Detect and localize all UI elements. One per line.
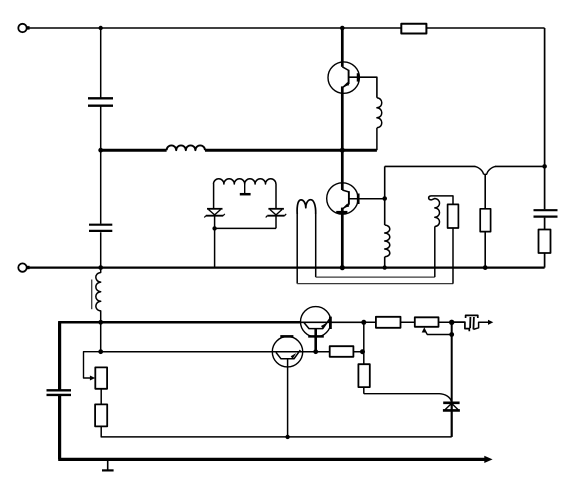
resistor R2 (right) <box>539 230 551 254</box>
wire x=451.7 vertical <box>451 322 453 403</box>
node dot (384.7,198.5) <box>382 196 387 201</box>
wire diode bottoms connector <box>215 216 276 229</box>
transistor Q4 <box>272 336 302 437</box>
wire thick y=150.2 <box>101 149 377 152</box>
terminal T2 (bottom input) <box>18 263 29 271</box>
inductor L2 (Q1 base coil) <box>377 98 382 150</box>
wire L4 right end down <box>275 184 277 208</box>
wire R8 links <box>364 321 452 323</box>
ground <box>102 459 114 470</box>
wire bottom corner to y=436.9 <box>101 426 452 437</box>
resistor R8 <box>376 317 401 328</box>
node dot (362.5,351.7) <box>360 349 365 354</box>
node dot (451.7,334.5) <box>449 332 454 337</box>
node dot (100.7,351.7) <box>98 349 103 354</box>
node dot (451.7,322.3) <box>449 320 454 325</box>
wire y=393.7 with fillet to zener <box>364 394 452 404</box>
node dot (363.8,322.3) <box>361 320 366 325</box>
capacitor C3 (right) <box>534 210 558 216</box>
inductor L3 (squiggle) <box>385 225 390 257</box>
wire x=453 down <box>452 228 454 284</box>
node dot (100.7,322.3) <box>98 320 103 325</box>
inductor L4 (detector coil, 6 bumps) <box>214 179 276 184</box>
trimmer VR2 with wiper <box>415 317 452 334</box>
transistor Q1 <box>328 28 359 150</box>
node dot (100.7,150.2) <box>98 148 103 153</box>
wire thick y=322.3 <box>58 321 301 324</box>
capacitor C1 <box>88 98 113 105</box>
zener D3 <box>443 403 460 411</box>
thick frame left + bottom with arrow <box>58 322 492 463</box>
wire Q1 base to coil <box>349 77 377 98</box>
potentiometer VR1 with wiper <box>84 352 108 389</box>
wire pot to resistor <box>100 389 102 405</box>
inductor L1 (series, 4 bumps) <box>167 145 205 150</box>
diode D2 (right zener) <box>266 209 287 218</box>
choke L7 (with core bar) <box>92 268 101 323</box>
center tap of L4 <box>240 184 251 194</box>
wire y=351.7 <box>101 351 362 353</box>
jack J1 (earphone output) <box>452 315 494 331</box>
node dot (287.6,436.9) <box>285 435 289 439</box>
main bus y=267.6 <box>28 267 545 269</box>
node dot (342.3,150.2) <box>340 148 345 153</box>
wire loop y=277.1 <box>316 276 435 278</box>
capacitor C2 <box>89 225 112 231</box>
resistor R1 <box>401 24 426 34</box>
coil L5 (2-turn coupling coil) <box>297 200 316 284</box>
wire x=100.7 (322-352) <box>100 322 102 351</box>
terminal T1 (top input) <box>18 24 29 32</box>
resistor R3 <box>480 209 490 232</box>
resistor R4 <box>448 204 459 228</box>
node dot (214.6,228.4) <box>212 226 216 230</box>
wire top bus <box>28 27 545 29</box>
wire x=384.7 vertical <box>384 166 386 267</box>
transistor Q3 <box>301 307 331 352</box>
transformer coil L6 <box>429 196 440 277</box>
wire Q2 base <box>349 198 385 200</box>
node dot top at x=100.7 <box>99 26 103 30</box>
node dots on main bus <box>98 265 103 270</box>
wire loop y=283.6 <box>297 283 453 285</box>
wire right edge vertical <box>544 28 546 268</box>
wire x=100.7 vertical <box>100 28 102 268</box>
diode D1 (left zener) <box>204 209 225 218</box>
wire x=214.6 down to bus <box>214 228 216 267</box>
resistor R6 <box>330 346 354 357</box>
capacitor C4 (bottom left) <box>47 390 72 395</box>
wire zener to bottom corner <box>451 403 453 437</box>
wire x=485.3 vertical <box>484 174 486 267</box>
node dot (315.7,351.7) <box>313 349 318 354</box>
wire y=166.4 with Y-tap <box>385 166 545 174</box>
resistor R5 <box>95 404 107 426</box>
transistor Q2 <box>327 150 359 267</box>
node dot right at (544.6,166.4) <box>542 164 547 169</box>
wire x=363.8 vertical <box>363 322 365 393</box>
node dot top at x=342.3 <box>340 26 345 31</box>
wire transformer top link <box>431 196 454 205</box>
resistor R7 <box>358 364 369 387</box>
wire L4 left end down <box>213 184 215 208</box>
